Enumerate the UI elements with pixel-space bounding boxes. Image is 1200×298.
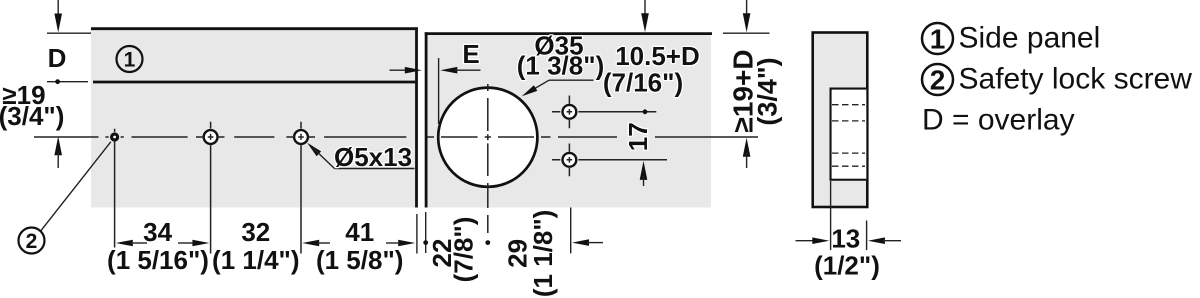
door top edge	[425, 32, 712, 35]
circled 1	[117, 46, 143, 72]
svg-text:(3/4"): (3/4")	[0, 101, 64, 131]
cup vertical axis	[487, 84, 489, 233]
svg-text:(1 5/8"): (1 5/8")	[316, 245, 403, 275]
overlay dot marker	[47, 79, 88, 84]
hidden dashed line 3	[832, 152, 865, 154]
svg-text:1: 1	[124, 49, 136, 72]
mounting recess	[831, 89, 867, 180]
10.5+D top arrow	[641, 0, 649, 32]
svg-text:(7/16"): (7/16")	[603, 68, 683, 98]
legend circled 2	[922, 64, 953, 96]
cup hole Ø35	[438, 88, 537, 187]
system hole 1	[204, 130, 218, 144]
svg-text:1: 1	[930, 24, 946, 55]
svg-text:Side panel: Side panel	[959, 22, 1101, 55]
svg-text:10.5+D: 10.5+D	[615, 41, 700, 71]
17 bottom arrow	[640, 161, 648, 186]
door center axis	[428, 136, 759, 138]
side panel top edge	[91, 27, 418, 30]
screw hole bottom	[552, 144, 667, 177]
svg-text:Safety lock screw: Safety lock screw	[959, 63, 1193, 96]
svg-text:17: 17	[623, 122, 653, 151]
svg-text:41: 41	[345, 217, 374, 247]
system hole 1 cross lines	[196, 122, 225, 254]
dimension 41	[302, 217, 415, 247]
svg-text:(1 1/4"): (1 1/4")	[212, 245, 299, 275]
cross-section panel body	[813, 33, 868, 208]
svg-text:(7/8"): (7/8")	[448, 217, 478, 283]
svg-text:2: 2	[26, 230, 38, 253]
13 extension line left	[830, 181, 832, 250]
door panel body	[426, 33, 711, 207]
svg-text:D = overlay: D = overlay	[922, 104, 1075, 137]
screw hole top	[552, 96, 656, 129]
door edge extension line (left)	[47, 32, 91, 34]
dimension 34	[116, 217, 210, 247]
svg-text:(1 1/8"): (1 1/8")	[528, 210, 558, 297]
extension line door edge (bottom of side panel)	[416, 214, 418, 254]
D dimension top arrow	[54, 0, 62, 33]
>=19+D top arrow	[743, 0, 751, 32]
leader from safety screw to circled 2	[41, 142, 111, 231]
E dimension arrows	[390, 58, 481, 124]
axis extension left of side panel	[34, 136, 94, 138]
svg-text:E: E	[462, 39, 479, 69]
svg-text:13: 13	[831, 224, 860, 254]
side panel right edge	[415, 27, 418, 207]
system hole 2 cross lines	[286, 122, 315, 254]
hidden dashed line 2	[832, 120, 865, 122]
cup center dot below	[485, 240, 490, 245]
svg-text:34: 34	[143, 217, 172, 247]
svg-text:(1 5/16"): (1 5/16")	[107, 245, 209, 275]
system hole 2	[294, 130, 308, 144]
>=19+D extension line top	[723, 32, 770, 34]
13 right arrow	[868, 237, 901, 244]
circled 2	[19, 228, 45, 254]
svg-text:(1/2"): (1/2")	[814, 251, 880, 281]
center axis of side panel	[94, 136, 406, 138]
overlay line on side panel	[93, 81, 415, 84]
Ø5x13 leader arrow	[307, 143, 414, 169]
>=19 bottom arrow	[54, 136, 62, 168]
safety lock screw hole	[105, 129, 123, 248]
Ø35 leader arrow	[522, 80, 594, 96]
door edge extension line below	[423, 212, 428, 253]
side panel body	[91, 28, 417, 208]
svg-text:Ø5x13: Ø5x13	[334, 142, 412, 172]
svg-text:D: D	[48, 43, 67, 73]
13 extension line right	[866, 221, 868, 251]
13 left arrow	[796, 237, 830, 244]
svg-text:2: 2	[930, 65, 946, 96]
29 extension line	[570, 208, 572, 254]
door left edge	[425, 32, 428, 207]
svg-text:(3/4"): (3/4")	[753, 57, 783, 125]
svg-text:(1 3/8"): (1 3/8")	[517, 51, 604, 81]
legend circled 1	[922, 23, 953, 55]
>=19+D bottom arrow	[743, 138, 751, 168]
svg-text:32: 32	[241, 217, 270, 247]
hidden dashed line 1	[832, 104, 865, 106]
hidden dashed line 4	[832, 165, 865, 167]
29 right arrow	[572, 239, 603, 246]
